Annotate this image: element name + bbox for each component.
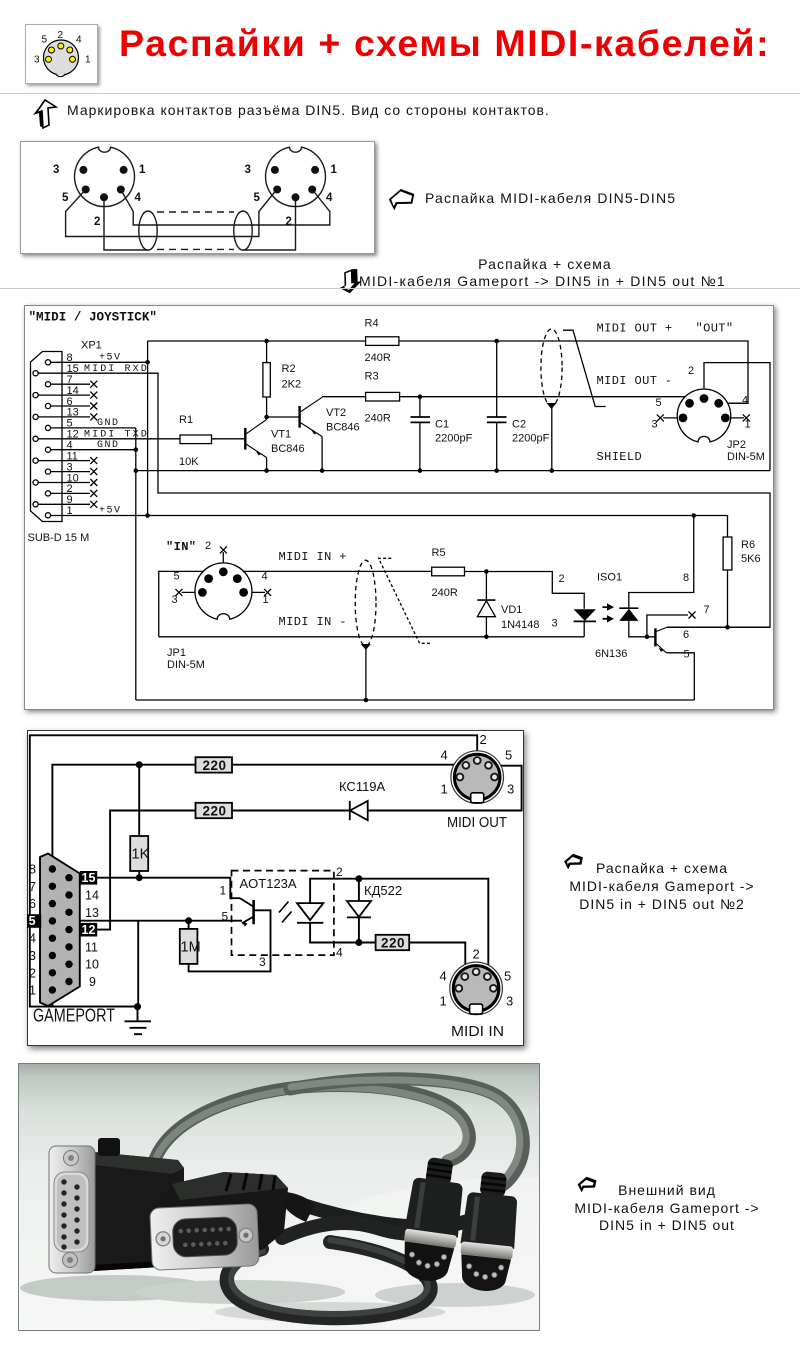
svg-text:2: 2: [559, 573, 565, 585]
svg-text:5: 5: [254, 192, 261, 204]
IN cable shield ellipse: [355, 560, 376, 646]
DIN5 icon pin 2: [58, 43, 64, 49]
wire gameport pin15 to AOT pin1: [97, 878, 240, 899]
DB15 female connector: molded body: [152, 1172, 288, 1252]
wire JP2 pin2 shield: [704, 363, 770, 471]
svg-text:R2: R2: [282, 363, 296, 375]
caption: MIDI-кабеля Gameport -> DIN5 in + DIN5 out №1 (line 2): [359, 273, 726, 289]
wire left GND vertical: [135, 428, 137, 700]
background right light sheet: [200, 1177, 540, 1330]
wire ISO1 pin7 base: [647, 615, 688, 637]
svg-text:3: 3: [172, 594, 178, 606]
svg-text:5: 5: [222, 910, 229, 924]
svg-text:JP1: JP1: [167, 647, 186, 659]
wire 1M top: [188, 921, 190, 929]
resistor R4 240R: [366, 337, 399, 346]
svg-text:VT1: VT1: [271, 429, 291, 441]
svg-text:8: 8: [683, 572, 689, 584]
diode KD522 (points down): [347, 901, 371, 917]
svg-text:SHIELD: SHIELD: [597, 450, 643, 464]
wire MIDI IN minus rail: [159, 636, 584, 638]
optocoupler AOT123A dashed box: [232, 871, 334, 956]
photo edge vignette: [19, 1064, 540, 1331]
pins: [465, 1261, 504, 1281]
wire R5 to VD1 node: [465, 571, 487, 573]
wire XP1 pin5 GND: [51, 427, 136, 429]
divider line 2: [0, 288, 800, 289]
MIDI OUT pin numbers: [440, 732, 515, 1009]
ISO1 photodiode (filled): [619, 609, 638, 621]
wire VT1 emitter vertical: [266, 458, 268, 471]
plug face: [458, 1254, 511, 1293]
JP1 pins: [198, 567, 248, 596]
resistor 220 (bottom): [376, 935, 410, 950]
svg-text:2: 2: [480, 732, 487, 747]
XP1 pin circles: [33, 360, 51, 518]
svg-text:2: 2: [688, 365, 694, 377]
resistor R6 5K6: [723, 537, 732, 570]
svg-text:"MIDI / JOYSTICK": "MIDI / JOYSTICK": [29, 311, 157, 325]
wire VT2 emitter vertical: [321, 437, 323, 471]
svg-text:MIDI OUT -: MIDI OUT -: [597, 374, 673, 388]
svg-text:3: 3: [507, 782, 514, 797]
component labels: [240, 779, 403, 898]
DIN5 icon pin 1: [70, 56, 76, 62]
wire +5V top rail: [148, 341, 748, 403]
svg-text:3: 3: [259, 955, 266, 969]
svg-text:R3: R3: [365, 371, 379, 383]
male screws: [64, 1151, 79, 1166]
strain relief ribs: [480, 1171, 507, 1197]
svg-text:6N136: 6N136: [595, 648, 627, 660]
resistor value labels: [203, 758, 406, 951]
svg-text:MIDI TXD: MIDI TXD: [84, 429, 149, 440]
wire AOT pin5 / gameport pin5: [41, 920, 242, 922]
svg-text:6: 6: [683, 629, 689, 641]
svg-text:3: 3: [652, 419, 658, 431]
svg-text:MIDI IN +: MIDI IN +: [279, 550, 347, 564]
svg-text:DIN-5M: DIN-5M: [727, 451, 765, 463]
wire AOT pin2 LED top to MIDI IN pin5: [310, 879, 488, 975]
svg-text:C1: C1: [435, 419, 449, 431]
IN shield slash: [379, 558, 432, 643]
OUT cable ellipse tip: [547, 403, 557, 409]
svg-text:1: 1: [263, 594, 269, 606]
svg-text:VT2: VT2: [326, 407, 346, 419]
svg-text:1: 1: [139, 164, 146, 176]
pinout box DIN5-DIN5: [20, 141, 375, 254]
photo: MIDI cable external view: [18, 1063, 540, 1331]
wire XP1 pin12 MIDI TXD to R1: [38, 438, 180, 440]
svg-text:2: 2: [286, 216, 292, 228]
svg-text:7: 7: [29, 880, 36, 894]
wire ISO1 pin6 output: [667, 626, 770, 628]
svg-text:1: 1: [85, 55, 91, 66]
svg-text:1M: 1M: [181, 940, 201, 956]
svg-text:2: 2: [58, 30, 64, 41]
svg-text:"IN": "IN": [166, 540, 196, 554]
svg-text:+5V: +5V: [99, 506, 122, 517]
gameport pin number labels: [29, 863, 99, 998]
female metal flange: [150, 1204, 260, 1271]
female strain relief to cable: [284, 1192, 314, 1222]
wire R1 to VT1 base: [212, 438, 245, 440]
svg-text:220: 220: [381, 936, 405, 951]
wire OUT cable drain: [551, 405, 553, 471]
svg-text:VD1: VD1: [501, 604, 522, 616]
XP1 SUB-D 15M connector body: [31, 352, 63, 522]
resistor 220 (middle): [196, 803, 233, 818]
gameport pin12 highlight box: [80, 923, 97, 937]
wire ISO1 pin8 to +5V: [629, 516, 694, 609]
resistor R2 2K2: [263, 363, 270, 397]
wire JP1 pin3 to X: [182, 591, 203, 593]
right DIN pins (dots): [271, 166, 279, 174]
svg-text:2: 2: [29, 966, 36, 980]
svg-text:4: 4: [29, 932, 36, 946]
male D shell: [54, 1172, 89, 1252]
svg-text:12: 12: [82, 923, 96, 937]
svg-text:3: 3: [245, 164, 251, 176]
JP2 pins: [679, 394, 730, 422]
OUT shield slash: [563, 330, 606, 406]
transistor VT1 BC846: [245, 420, 266, 458]
female pin holes: [178, 1227, 231, 1248]
wire R2 top: [266, 341, 268, 363]
svg-text:R6: R6: [741, 539, 755, 551]
diode KC119A (points left): [350, 801, 368, 820]
svg-text:5K6: 5K6: [741, 553, 761, 565]
svg-text:КД522: КД522: [364, 883, 402, 898]
capacitor C2 2200pF: [487, 417, 507, 422]
caption: Распайка MIDI-кабеля DIN5-DIN5: [425, 190, 676, 206]
wire JP2 pin1 to X: [725, 417, 744, 419]
wire 220 to KC119A to MIDI OUT pin5: [232, 766, 522, 811]
shield dashed bottom: [157, 248, 234, 250]
svg-text:240R: 240R: [365, 413, 391, 425]
AOT123A light slashes: [279, 902, 292, 923]
svg-text:1: 1: [440, 994, 447, 1009]
svg-text:2: 2: [473, 947, 480, 962]
wire bottom GND rail: [136, 699, 695, 701]
wire XP1 pin4 GND: [51, 449, 136, 451]
DIN5 icon pin 3: [46, 56, 52, 62]
caption: Распайка + схема (line 1): [330, 256, 760, 272]
svg-text:MIDI OUT +: MIDI OUT +: [597, 322, 673, 336]
wire R6 to output node: [727, 570, 729, 627]
wire AOT pin3 base to 1M bottom: [189, 910, 271, 971]
svg-text:1: 1: [29, 984, 36, 998]
wire pin5L to pin5R: [66, 190, 277, 237]
svg-text:3: 3: [29, 949, 36, 963]
svg-text:6: 6: [29, 897, 36, 911]
svg-text:1N4148: 1N4148: [501, 619, 540, 631]
transistor VT2 BC846: [300, 397, 323, 436]
left DIN pins (dots): [79, 166, 87, 174]
wire VT2 collector to R3: [322, 396, 366, 398]
svg-text:C2: C2: [512, 419, 526, 431]
svg-text:1: 1: [331, 164, 338, 176]
metal ring: [404, 1228, 457, 1248]
ground symbol: [125, 1007, 152, 1035]
svg-text:3: 3: [53, 164, 59, 176]
DB15 male metal face: [49, 1146, 95, 1273]
svg-text:11: 11: [85, 940, 98, 954]
wire JP2 pin3 to X: [663, 417, 683, 419]
wire LED cathode down: [583, 621, 585, 636]
wire 1K branch: [138, 765, 140, 878]
svg-text:2: 2: [336, 865, 343, 879]
svg-text:GAMEPORT: GAMEPORT: [33, 1006, 115, 1026]
XP1 unconnected pin stubs with X: [38, 381, 97, 508]
gameport pin5 highlight box: [24, 914, 41, 928]
black cable big bottom loop: [227, 1242, 431, 1318]
wire JP1 pin1 to X: [244, 591, 265, 593]
cable shield ellipse left: [139, 211, 157, 250]
photo background: [18, 1063, 540, 1331]
svg-text:1: 1: [220, 884, 227, 898]
left DIN pin labels: [53, 164, 338, 228]
wire C1 bottom: [419, 422, 421, 470]
IN cable ellipse tip: [361, 644, 371, 650]
ISO1 output transistor: [655, 627, 667, 653]
gameport pins right column: [65, 874, 72, 881]
wire gameport pin12 up: [97, 811, 196, 930]
strain relief ribs: [425, 1157, 453, 1186]
wire pin2L to left shield: [104, 197, 148, 250]
wire JP2 pin4: [719, 402, 748, 404]
svg-text:5: 5: [684, 649, 690, 661]
wire JP1 pin5 loop to MIDI IN minus: [159, 571, 209, 636]
svg-text:4: 4: [336, 946, 343, 960]
wire C2 top: [496, 341, 498, 417]
svg-text:5: 5: [174, 571, 180, 583]
resistor 220 (top): [196, 757, 233, 772]
left-arrow icon (photo caption): [574, 1176, 600, 1193]
svg-text:10K: 10K: [179, 456, 199, 468]
svg-text:7: 7: [704, 604, 710, 616]
gameport pins left column: [49, 865, 73, 993]
JP1 X marks pins 2,3,1: [175, 546, 271, 596]
XP1 signal labels: [84, 353, 149, 517]
svg-text:"OUT": "OUT": [696, 322, 734, 336]
svg-text:R1: R1: [179, 414, 193, 426]
wire MIDI OUT pin2 ground return: [30, 735, 477, 1006]
wire gameport pin1 to ground: [52, 990, 137, 1007]
wire photodiode to base node: [629, 621, 654, 637]
grey cable second run: [290, 1079, 523, 1190]
cable shield ellipse right: [234, 211, 252, 250]
svg-text:ISO1: ISO1: [597, 572, 622, 584]
DIN5 icon body: [44, 40, 79, 75]
resistor 1M: [180, 929, 198, 964]
component labels (sans): [167, 318, 765, 672]
svg-text:MIDI RXD: MIDI RXD: [84, 364, 149, 375]
svg-text:5: 5: [42, 35, 48, 46]
svg-text:GND: GND: [97, 418, 120, 429]
left DIN5 connector outline: [75, 147, 135, 206]
wire GND/shield rail: [136, 470, 770, 472]
connector JP2 DIN-5M: [657, 389, 750, 442]
wire C1 top: [419, 397, 421, 417]
svg-text:4: 4: [326, 192, 333, 204]
connector MIDI IN DIN5: [450, 962, 503, 1015]
capacitor C1 2200pF: [411, 417, 431, 422]
wire XP1 pin1 +5V: [51, 515, 148, 517]
caption: Распайка + схема / MIDI-кабеля Gameport -> / DIN5 in + DIN5 out №2: [462, 859, 800, 913]
DIN plug left: [398, 1155, 469, 1284]
svg-text:5: 5: [29, 914, 36, 928]
wire gameport pin8 to 220 and MIDI OUT pin4: [52, 765, 464, 869]
down-arrow icon: [339, 268, 362, 294]
diode VD1 1N4148 (open): [477, 601, 495, 617]
shield dashed top: [157, 211, 234, 213]
metal ring: [460, 1241, 513, 1259]
connector JP1 DIN-5M: [175, 546, 271, 619]
grey cable big upper loop: [152, 1079, 523, 1190]
female D recess: [172, 1217, 238, 1258]
svg-text:14: 14: [85, 889, 99, 903]
svg-text:3: 3: [506, 994, 513, 1009]
resistor R5 240R: [432, 567, 465, 576]
wire ISO1 pin5 emitter to bottom rail: [666, 653, 694, 700]
svg-text:XP1: XP1: [81, 340, 102, 352]
wire pin5 line down to ground: [137, 921, 139, 1007]
wire +5V rail to R6: [148, 516, 728, 538]
svg-text:BC846: BC846: [326, 422, 360, 434]
left-arrow icon (DIN5-DIN5 caption): [388, 188, 415, 211]
svg-text:220: 220: [203, 758, 227, 773]
plug face: [400, 1241, 455, 1284]
svg-text:4: 4: [441, 748, 448, 763]
wire C2 bottom: [496, 422, 498, 470]
svg-text:8: 8: [29, 863, 36, 877]
svg-text:1: 1: [67, 505, 73, 517]
pins: [408, 1250, 447, 1271]
X mark ISO1 pin7: [689, 612, 696, 619]
svg-text:4: 4: [742, 395, 748, 407]
wire IN cable drain: [365, 645, 367, 700]
black cable wavy middle run: [282, 1223, 449, 1238]
table shadows: [20, 1275, 210, 1301]
DB15 male connector: hood: [94, 1152, 184, 1271]
right DIN5 connector outline: [266, 147, 326, 206]
svg-text:КС119А: КС119А: [339, 779, 386, 794]
DIN5 connector icon (header): [25, 24, 98, 84]
svg-text:R5: R5: [432, 547, 446, 559]
AOT pin numbers: [220, 865, 344, 969]
wire KD522 verticals: [358, 879, 360, 943]
svg-text:1K: 1K: [132, 847, 150, 863]
svg-text:MIDI IN: MIDI IN: [451, 1024, 504, 1040]
plug body: [404, 1177, 465, 1238]
divider line 1: [0, 93, 800, 94]
MIDI IN pins: [455, 968, 496, 991]
svg-text:MIDI OUT: MIDI OUT: [447, 815, 507, 831]
svg-text:BC846: BC846: [271, 443, 305, 455]
svg-text:5: 5: [505, 748, 512, 763]
svg-text:R4: R4: [365, 318, 379, 330]
svg-text:JP2: JP2: [727, 439, 746, 451]
black cable from female connector to right: [300, 1194, 497, 1227]
DIN5 icon pin 5: [49, 47, 55, 53]
caption: Внешний вид / MIDI-кабеля Gameport -> / DIN5 in + DIN5 out: [467, 1182, 800, 1235]
svg-text:1: 1: [441, 782, 448, 797]
svg-text:GND: GND: [97, 440, 120, 451]
intro caption: [67, 102, 550, 118]
gameport pin15 highlight box: [80, 871, 97, 885]
connector name labels: [447, 815, 507, 1040]
DIN plug right: [456, 1170, 522, 1294]
svg-text:2200pF: 2200pF: [512, 433, 550, 445]
OUT cable shield ellipse: [541, 329, 562, 406]
svg-text:2200pF: 2200pF: [435, 433, 473, 445]
svg-text:220: 220: [203, 803, 227, 818]
svg-text:SUB-D 15 M: SUB-D 15 M: [28, 532, 90, 544]
gameport DB15 connector body: [40, 854, 80, 1007]
svg-text:AOT123A: AOT123A: [240, 876, 297, 891]
wire JP1 pin2 up to X: [222, 552, 224, 572]
left-arrow icon (schematic 2 caption): [561, 853, 586, 870]
signal labels (mono): [166, 322, 734, 630]
pin number labels: [34, 30, 91, 66]
AOT123A LED (open, points down): [297, 903, 323, 920]
resistor R3 240R: [366, 392, 400, 401]
svg-text:240R: 240R: [432, 587, 458, 599]
svg-text:+5V: +5V: [99, 353, 122, 364]
svg-text:4: 4: [262, 571, 268, 583]
gameport schematic box: [27, 730, 524, 1046]
wire pin2R to right shield: [243, 197, 296, 250]
svg-text:2K2: 2K2: [282, 379, 302, 391]
svg-text:4: 4: [440, 969, 447, 984]
wire VD1 vertical: [485, 572, 487, 637]
svg-text:15: 15: [82, 871, 96, 885]
svg-text:9: 9: [89, 975, 96, 989]
wire R2 bottom to VT1 collector node: [266, 397, 268, 417]
svg-text:5: 5: [656, 397, 662, 409]
wire VT2 base: [267, 416, 299, 418]
wire +5V vertical bus: [147, 341, 149, 516]
male pins: [61, 1179, 79, 1249]
JP2 X marks pins 3,1: [657, 414, 750, 421]
wire XP1 pin8 to +5V bus: [51, 361, 148, 363]
svg-text:3: 3: [552, 618, 558, 630]
svg-text:5: 5: [62, 192, 69, 204]
wire XP1 pin15 MIDI RXD to opto collector: [38, 373, 770, 627]
DIN5 icon pin 4: [67, 47, 73, 53]
optocoupler ISO1 6N136 LED (filled): [574, 609, 596, 621]
ISO1 light arrows: [603, 607, 609, 619]
female screw nuts: [156, 1232, 171, 1247]
junction dots: [134, 339, 730, 703]
female body ribs: [226, 1173, 275, 1191]
connector MIDI OUT DIN5: [451, 751, 504, 804]
wire pin4L to pin4R: [121, 190, 330, 226]
wire MIDI OUT minus line R3 to JP2 pin5: [400, 397, 690, 404]
svg-text:3: 3: [34, 55, 40, 66]
svg-text:5: 5: [504, 969, 511, 984]
junction dots: [134, 761, 362, 1010]
svg-text:2: 2: [94, 216, 100, 228]
male hood thumbscrew: [98, 1138, 120, 1156]
XP1 labels: [28, 340, 102, 545]
wire LED bottom pin4 to 220 to MIDI IN pin4: [310, 923, 465, 975]
svg-text:4: 4: [135, 192, 142, 204]
svg-text:1: 1: [745, 419, 751, 431]
plug body: [460, 1191, 519, 1248]
svg-text:10: 10: [85, 958, 99, 972]
